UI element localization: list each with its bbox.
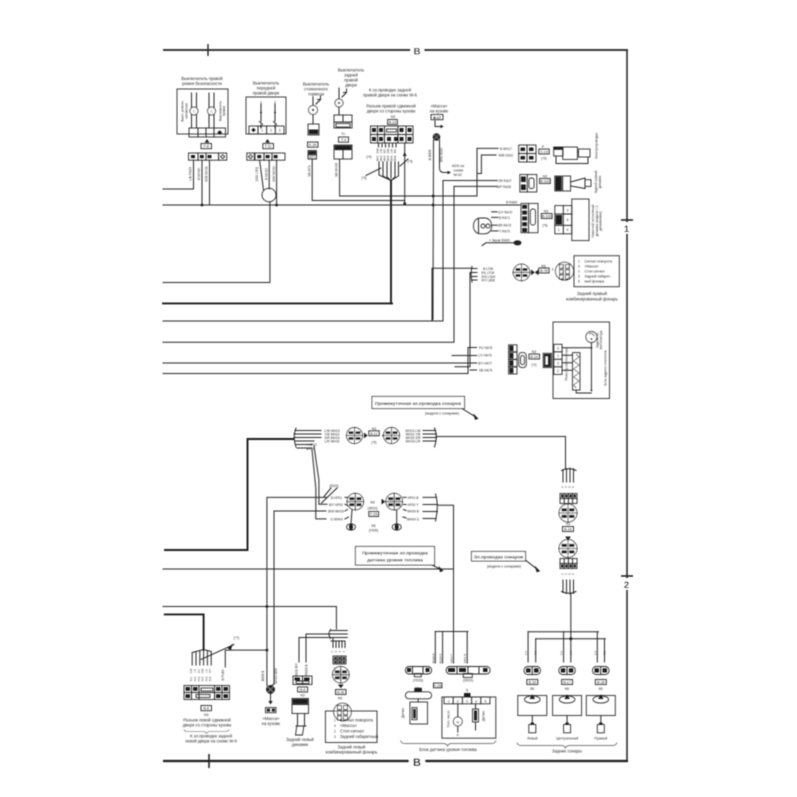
svg-text:(*2): (*2): [531, 363, 536, 367]
svg-text:WH04 G: WH04 G: [439, 654, 443, 664]
svg-text:W/B WH11: W/B WH11: [205, 166, 209, 182]
svg-text:Датчик: Датчик: [401, 707, 405, 718]
svg-text:S/W: S/W: [386, 148, 390, 153]
svg-text:4: 4: [578, 264, 580, 268]
resistor R1 blower resistor connector: [543, 353, 551, 367]
svg-text:F-25: F-25: [434, 684, 441, 688]
svg-text:RA06 B: RA06 B: [305, 665, 309, 676]
connector chain sonar vertical: [559, 468, 577, 639]
svg-text:Тч: Тч: [341, 132, 345, 136]
svg-text:(5020): (5020): [329, 484, 338, 488]
svg-text:Y RA73: Y RA73: [499, 229, 510, 233]
svg-text:пряжки: пряжки: [222, 106, 226, 117]
svg-text:на кузове: на кузове: [262, 721, 281, 726]
wire top border B: [163, 49, 628, 51]
heater unit block rear: [468, 322, 610, 399]
connector cells column: [509, 345, 517, 352]
connector row A sonar intermediate: [165, 427, 566, 550]
svg-text:«Масса»: «Масса»: [340, 723, 358, 728]
svg-text:B/Y: B/Y: [383, 149, 387, 153]
wire (*7) jumper: [225, 650, 267, 667]
svg-text:B/W WH24: B/W WH24: [328, 510, 344, 514]
svg-text:WH24 B/W: WH24 B/W: [274, 668, 278, 684]
svg-text:(Y026): (Y026): [369, 529, 379, 533]
connector B1 round: [347, 493, 364, 510]
svg-text:6: 6: [567, 218, 569, 222]
wire sonar chain down: [570, 594, 572, 639]
svg-text:S/W WH19: S/W WH19: [272, 166, 276, 182]
svg-text:3: 3: [334, 735, 336, 739]
svg-text:WH4: WH4: [386, 155, 390, 161]
svg-text:3: 3: [567, 209, 569, 213]
svg-text:Задние сонары: Задние сонары: [552, 749, 582, 754]
svg-text:SB HA79: SB HA79: [479, 369, 492, 373]
wire bus L5: [163, 362, 477, 364]
svg-text:S/W: S/W: [202, 668, 205, 673]
svg-text:схеме: схеме: [454, 169, 464, 173]
fan-in bracket: [562, 468, 577, 482]
svg-text:WH04 G: WH04 G: [407, 517, 420, 521]
svg-text:WH2: WH2: [379, 155, 383, 161]
svg-text:B/Y: B/Y: [198, 669, 201, 673]
svg-text:WH6: WH6: [393, 155, 397, 161]
svg-text:WH5: WH5: [390, 155, 394, 161]
svg-text:Стоп-сигнал: Стоп-сигнал: [585, 269, 605, 273]
wire thick bundle down: [390, 181, 392, 304]
svg-text:G/W: G/W: [190, 668, 193, 674]
svg-text:B-16: B-16: [564, 528, 571, 532]
svg-text:OR RA27: OR RA27: [498, 179, 512, 183]
svg-text:F-8: F-8: [204, 145, 209, 149]
svg-text:N3: N3: [370, 501, 375, 505]
svg-text:N3: N3: [391, 115, 396, 119]
bracket left: [294, 428, 321, 448]
svg-text:W/B GA11: W/B GA11: [499, 154, 514, 158]
connector C1 round intermediate: [513, 264, 530, 281]
switch S4 rear right door switch: [334, 68, 477, 197]
svg-text:3: 3: [552, 268, 554, 272]
svg-text:3: 3: [557, 362, 559, 366]
svg-text:WH1: WH1: [376, 155, 380, 161]
lamp terminal box: [325, 711, 377, 743]
shield connectors: [351, 510, 352, 524]
svg-text:комбинированный фонарь: комбинированный фонарь: [566, 297, 618, 302]
svg-text:PU2: PU2: [194, 676, 197, 681]
speaker SP2 overhead speaker row: [474, 199, 603, 246]
svg-text:правой двери на схеме W-6: правой двери на схеме W-6: [363, 93, 418, 98]
wire B/W WH24: [274, 510, 326, 512]
resistor R2 symbol: [573, 353, 581, 391]
connector bracket stubs: [470, 267, 477, 283]
node tick 1: [621, 219, 633, 221]
wire row A left feed: [165, 439, 294, 550]
svg-text:динамик: динамик: [598, 175, 602, 188]
wire parking brake to right: [312, 159, 405, 200]
svg-text:Электропроводка: Электропроводка: [595, 133, 599, 159]
wire stub diagonals to row B: [314, 446, 327, 504]
svg-text:2: 2: [270, 129, 272, 133]
svg-text:R/Y L808: R/Y L808: [482, 279, 495, 283]
svg-text:динамик: динамик: [292, 742, 309, 747]
svg-text:B PU84: B PU84: [221, 669, 225, 680]
svg-text:тормоза: тормоза: [308, 92, 325, 97]
svg-text:Сигнал поворота: Сигнал поворота: [585, 259, 613, 263]
wire bundle hatch converging: [379, 162, 399, 181]
svg-text:C-14: C-14: [540, 150, 548, 154]
svg-text:S R: S R: [525, 651, 528, 655]
svg-text:(модели с сонарами): (модели с сонарами): [425, 412, 459, 416]
svg-text:T-11: T-11: [265, 145, 272, 149]
svg-text:G/W: G/W: [376, 148, 380, 154]
svg-text:ремня безопасности: ремня безопасности: [182, 81, 222, 86]
motor M1 rear blower motor: [586, 332, 597, 343]
svg-text:B: B: [457, 733, 459, 737]
ground G2 «Масса» на кузове bottom: [261, 497, 281, 725]
svg-text:B-30: B-30: [337, 691, 344, 695]
svg-text:M: M: [456, 720, 459, 724]
wire thick tail drop: [455, 273, 470, 367]
svg-text:Промежуточная эл.проводка сона: Промежуточная эл.проводка сонаров: [375, 401, 461, 406]
svg-text:B-8: B-8: [203, 707, 209, 711]
wire RA70-73: [492, 211, 497, 213]
svg-text:двери со стороны кузова: двери со стороны кузова: [367, 109, 416, 114]
sonar unit left: [518, 667, 547, 741]
lamp L1 rear right combination lamp row: [470, 256, 619, 302]
svg-text:В: В: [413, 757, 421, 769]
wire ground branch A: [432, 140, 435, 320]
wire B/P RA28: [454, 185, 497, 187]
heater box: [553, 322, 610, 399]
wire: [260, 160, 264, 190]
svg-text:B RA71: B RA71: [499, 216, 510, 220]
svg-text:1: 1: [624, 224, 630, 235]
svg-text:1: 1: [334, 719, 336, 723]
wire bus L2 thick to bundle: [163, 302, 392, 304]
svg-text:3: 3: [466, 699, 468, 703]
wire bundle hatch: [192, 650, 211, 666]
svg-text:ный фонарь: ный фонарь: [585, 279, 605, 283]
svg-text:1: 1: [261, 129, 263, 133]
svg-text:левой двери на схеме W-6: левой двери на схеме W-6: [185, 738, 237, 743]
antenna amplifier A1: [554, 147, 563, 156]
svg-text:B-6: B-6: [300, 688, 306, 692]
node tick top: [207, 44, 209, 56]
svg-text:B/P RA28: B/P RA28: [497, 185, 511, 189]
svg-text:B/P: B/P: [393, 149, 397, 153]
wire row A to sonar chain: [437, 437, 566, 470]
svg-text:PU1: PU1: [190, 676, 193, 681]
svg-text:RA11 B/Y: RA11 B/Y: [295, 662, 299, 677]
wire bus L3: [163, 181, 443, 322]
svg-text:L/Y HA75: L/Y HA75: [478, 354, 492, 358]
connector D1 round: [559, 504, 577, 522]
svg-text:PU4: PU4: [202, 676, 205, 681]
sonar rear units group: [525, 632, 606, 662]
label fuel gauge intermediate harness: [356, 547, 444, 573]
svg-text:R6: R6: [371, 524, 375, 528]
svg-text:HP01 B: HP01 B: [408, 496, 419, 500]
svg-text:N3: N3: [543, 175, 548, 179]
connector loop oval: [262, 188, 276, 202]
svg-text:B/W 0010: B/W 0010: [439, 148, 443, 162]
wire separate (＊4) wire down to bus: [404, 143, 406, 204]
wire bottom border B: [163, 760, 628, 762]
connector row B fuel gauge intermediate: [267, 484, 454, 632]
svg-text:L/B: L/B: [379, 149, 383, 153]
speaker SP3 rear left speaker: [286, 634, 329, 747]
svg-text:G/W L501: G/W L501: [255, 167, 259, 182]
svg-text:+ Экран RA69: + Экран RA69: [489, 239, 510, 243]
svg-text:N3: N3: [204, 713, 209, 717]
svg-text:PU5: PU5: [205, 676, 208, 681]
connector pill right (SR20): [446, 667, 490, 675]
door speaker oval symbol: [474, 218, 492, 234]
connector D2 round: [559, 540, 577, 558]
label sonar intermediate harness: [372, 397, 479, 420]
wire HA75 stub: [452, 355, 477, 357]
svg-text:G WH04: G WH04: [330, 517, 342, 521]
svg-text:B-14: B-14: [530, 355, 537, 359]
connector A1 round: [347, 428, 363, 444]
svg-text:W-02: W-02: [454, 173, 462, 177]
svg-text:4: 4: [334, 724, 336, 728]
svg-text:F-25: F-25: [370, 513, 377, 517]
wire bus RA69 main: [163, 204, 520, 206]
svg-text:двери: двери: [345, 83, 357, 88]
svg-text:SB MT1: SB MT1: [307, 165, 311, 177]
bundle bracket: [329, 630, 347, 642]
wire long y569: [163, 568, 454, 570]
svg-text:вентилятора: вентилятора: [599, 330, 603, 349]
pin cells: [554, 344, 562, 374]
svg-text:BR RA72: BR RA72: [498, 224, 512, 228]
svg-text:HP02 Y: HP02 Y: [408, 503, 420, 507]
svg-text:3: 3: [578, 274, 580, 278]
node tick bottom: [208, 754, 210, 768]
svg-text:(SR20): (SR20): [463, 678, 473, 682]
svg-text:HP01 B: HP01 B: [463, 654, 467, 663]
svg-text:G/Y RA70: G/Y RA70: [498, 210, 513, 214]
switch S2 front right door switch block: [163, 81, 286, 283]
svg-text:Правый: Правый: [594, 736, 607, 740]
svg-text:2: 2: [624, 580, 629, 591]
svg-text:В: В: [414, 47, 421, 58]
svg-text:B/P: B/P: [209, 669, 212, 673]
sonar unit right: [586, 667, 615, 741]
wire long bus lines left: [163, 181, 520, 374]
svg-text:B B: B B: [535, 651, 538, 655]
lamp L2 rear left combination lamp: [325, 630, 378, 755]
svg-text:S R: S R: [594, 651, 597, 655]
svg-text:B B008: B B008: [428, 150, 432, 161]
wire OR RA27: [443, 180, 497, 182]
svg-text:1: 1: [557, 354, 559, 358]
svg-text:B-11: B-11: [370, 432, 377, 436]
svg-text:(*3): (*3): [541, 157, 546, 161]
svg-text:Топл. насос: Топл. насос: [447, 710, 451, 728]
svg-text:Задний габаритный: Задний габаритный: [340, 734, 379, 739]
svg-text:4: 4: [557, 347, 559, 351]
wire stubs with labels: [379, 143, 397, 147]
wire funnel row1 to ground wire: [477, 148, 498, 196]
svg-text:Задний габарит-: Задний габарит-: [585, 274, 612, 278]
svg-text:натяжения: натяжения: [185, 103, 189, 119]
svg-text:WH24 B: WH24 B: [407, 510, 419, 514]
svg-text:B WH10: B WH10: [197, 168, 201, 180]
svg-text:B-102: B-102: [540, 180, 549, 184]
svg-text:датчика уровня топлива: датчика уровня топлива: [367, 557, 423, 562]
svg-text:1: 1: [558, 228, 560, 232]
wire: [209, 160, 211, 205]
wire rear door to funnel: [340, 159, 477, 196]
svg-text:B WH17: B WH17: [500, 147, 512, 151]
connector A2 round: [384, 428, 400, 444]
connector C2 round lamp connector: [556, 262, 574, 280]
svg-text:B-18: B-18: [597, 681, 604, 685]
svg-text:L/R: L/R: [205, 669, 208, 673]
svg-text:B-17: B-17: [433, 116, 441, 120]
svg-text:SB WH18: SB WH18: [335, 163, 339, 177]
svg-text:Задний правый: Задний правый: [577, 291, 608, 296]
wire ground branch B to ADS: [440, 140, 449, 173]
svg-text:2: 2: [457, 699, 459, 703]
svg-text:R: R: [339, 650, 342, 652]
svg-text:(*4): (*4): [366, 155, 371, 159]
fan-out bracket: [562, 580, 577, 594]
lamp terminal box: [574, 256, 619, 287]
svg-text:Блок заднего отопителя: Блок заднего отопителя: [604, 350, 608, 386]
svg-text:B B: B B: [570, 651, 573, 655]
svg-text:2: 2: [578, 269, 580, 273]
svg-text:Датчик: Датчик: [482, 710, 486, 721]
svg-text:2: 2: [557, 369, 559, 373]
svg-text:(YD26): (YD26): [413, 678, 423, 682]
svg-text:5: 5: [485, 699, 487, 703]
svg-text:B-19: B-19: [389, 121, 396, 125]
switch S3 parking brake switch: [303, 82, 405, 201]
svg-text:Блок датчика уровня топлива: Блок датчика уровня топлива: [419, 747, 477, 752]
svg-text:Эл.проводка сонаров: Эл.проводка сонаров: [474, 554, 524, 559]
wire distribution lines: [528, 632, 605, 639]
svg-text:B/Y HA77: B/Y HA77: [478, 361, 492, 365]
svg-text:B HP01: B HP01: [331, 496, 342, 500]
svg-text:WH16 L/R: WH16 L/R: [406, 439, 421, 443]
wire y606.5 to lamp: [163, 607, 336, 630]
connector N3 sliding door body-side connector: [361, 88, 417, 304]
svg-text:4: 4: [567, 228, 569, 232]
svg-text:PU HA76: PU HA76: [479, 346, 493, 350]
wire pair into ground: [267, 497, 274, 684]
svg-text:L/R: L/R: [390, 149, 394, 153]
svg-text:B008 B: B008 B: [261, 671, 265, 681]
label rear sonars: [517, 743, 617, 754]
svg-text:1: 1: [448, 699, 450, 703]
svg-text:S R: S R: [561, 651, 564, 655]
connector N3 left sliding door body-side: [183, 636, 267, 744]
svg-text:E-34: E-34: [309, 143, 316, 147]
svg-text:L/B FM23: L/B FM23: [189, 167, 193, 181]
wire heater internals: [562, 343, 591, 394]
wire riser tail lamp 1: [432, 268, 472, 321]
svg-text:«Масса»: «Масса»: [585, 264, 599, 268]
switch S1 seat belt buckle switch block: [163, 76, 228, 205]
wire bus L4: [163, 186, 454, 342]
wire row B to fuel block: [439, 505, 454, 631]
svg-text:(*4): (*4): [407, 160, 412, 164]
wire heater stubs: [468, 347, 477, 349]
svg-text:на кузове: на кузове: [430, 109, 449, 114]
svg-text:(*6): (*6): [361, 176, 366, 180]
svg-text:T-4: T-4: [341, 138, 346, 142]
svg-text:ADS на: ADS на: [452, 164, 464, 168]
connector round E2 6pin: [334, 703, 352, 721]
svg-text:L/B: L/B: [194, 669, 197, 673]
wire bus L6: [163, 348, 468, 374]
svg-text:B-16: B-16: [529, 681, 536, 685]
svg-text:(*6): (*6): [371, 440, 376, 444]
wire lower-left horizontals: [163, 569, 454, 650]
big grid connector: [184, 686, 230, 700]
svg-text:PU6: PU6: [209, 676, 212, 681]
bracket right: [423, 494, 438, 521]
node junction dots: [201, 195, 573, 652]
svg-text:B-17: B-17: [563, 681, 570, 685]
svg-text:1: 1: [578, 259, 580, 263]
speaker SP1 rear right speaker row: [443, 170, 602, 193]
shield wire RA69: [482, 243, 514, 246]
svg-text:B B: B B: [604, 651, 607, 655]
wire right border: [626, 50, 628, 761]
svg-text:правой двери: правой двери: [253, 91, 280, 96]
bracket right: [423, 428, 437, 447]
svg-text:WH3: WH3: [383, 155, 387, 161]
svg-text:Левый: Левый: [527, 736, 538, 740]
connector row1 antenna feeder: [499, 133, 599, 164]
level sensor: [475, 704, 477, 709]
svg-text:двери со стороны кузова: двери со стороны кузова: [183, 722, 232, 727]
svg-text:Промежуточная эл.проводка: Промежуточная эл.проводка: [362, 550, 428, 555]
node tick 2: [621, 575, 633, 577]
svg-text:Стоп-сигнал: Стоп-сигнал: [340, 729, 364, 734]
wire thick y614.4: [165, 614, 204, 649]
connector B2 round: [386, 493, 403, 510]
svg-text:(модели с сонарами): (модели с сонарами): [487, 565, 521, 569]
svg-text:3: 3: [279, 129, 281, 133]
connector round E1: [333, 666, 350, 683]
svg-text:L/R WH16: L/R WH16: [325, 439, 340, 443]
svg-text:N3: N3: [544, 210, 549, 214]
svg-text:(SR20): (SR20): [367, 507, 377, 511]
motor M2 fuel pump: [457, 704, 459, 717]
svg-text:(*5): (*5): [542, 224, 547, 228]
svg-text:N3: N3: [532, 350, 537, 354]
svg-text:WH24 B: WH24 B: [431, 653, 435, 663]
connector pill left (YD26): [405, 667, 431, 675]
svg-text:4: 4: [475, 699, 477, 703]
wire seat belt to left bus: [163, 160, 194, 189]
svg-text:динамиками): динамиками): [599, 211, 603, 230]
svg-text:комбинированный фонарь: комбинированный фонарь: [326, 749, 378, 754]
svg-text:2: 2: [334, 730, 336, 734]
label sonar harness: [472, 552, 541, 573]
svg-text:B/Y HP02: B/Y HP02: [329, 503, 343, 507]
svg-text:PU3: PU3: [198, 676, 201, 681]
wire B HP01: [267, 496, 327, 498]
svg-text:R5: R5: [338, 696, 342, 700]
svg-text:Резистор вентилятора: Резистор вентилятора: [565, 347, 569, 380]
ground G1 «Масса» на кузове top: [428, 104, 464, 320]
svg-text:(*7): (*7): [234, 636, 240, 640]
